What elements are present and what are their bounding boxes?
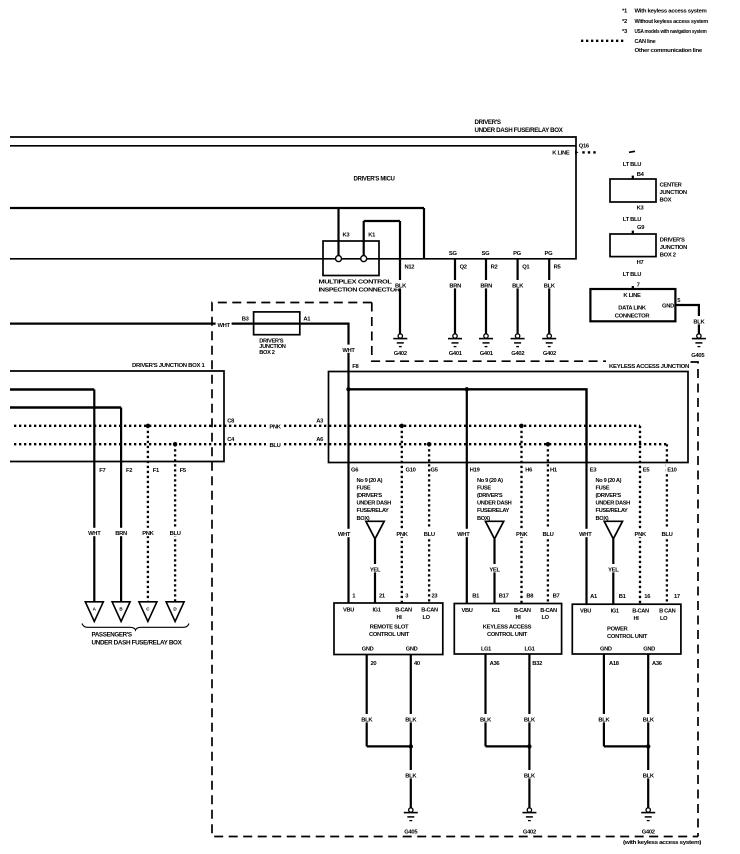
svg-text:G6: G6 [351, 467, 359, 473]
svg-text:PNK: PNK [142, 531, 154, 537]
wire label BRN (Q2) [447, 280, 465, 290]
svg-text:BLK: BLK [524, 773, 536, 779]
svg-text:BLK: BLK [395, 284, 407, 290]
svg-text:FUSE: FUSE [357, 485, 371, 491]
connector B triangle [112, 602, 130, 622]
fuse No.9 text (keyless access) [477, 478, 512, 522]
svg-text:B CAN: B CAN [659, 608, 676, 614]
driver's junction box 2 (inline) [254, 312, 300, 335]
svg-text:C4: C4 [227, 437, 235, 443]
svg-text:E5: E5 [643, 467, 651, 473]
svg-text:E10: E10 [667, 467, 676, 473]
svg-text:REMOTE SLOT: REMOTE SLOT [370, 624, 409, 630]
wire tick into driver's junction box 2 [632, 231, 634, 234]
wire label WHT (H19) [455, 529, 471, 538]
svg-text:BLK: BLK [524, 717, 536, 723]
svg-text:C8: C8 [227, 419, 235, 425]
svg-text:A1: A1 [303, 317, 311, 323]
center junction box label [660, 183, 687, 204]
pin B-CAN HI label (U3) [632, 608, 649, 621]
brace under connectors [82, 624, 189, 631]
pin B-CAN LO label (U1) [421, 608, 438, 621]
svg-text:R2: R2 [491, 264, 498, 270]
svg-text:B7: B7 [553, 593, 560, 599]
svg-text:CONNECTOR: CONNECTOR [615, 314, 651, 320]
svg-text:A6: A6 [316, 437, 324, 443]
multiplex connector label [319, 279, 401, 293]
wire YEL (power) [612, 539, 614, 604]
wire H19 WHT vertical [466, 389, 468, 603]
svg-text:FUSE: FUSE [477, 485, 491, 491]
ground G402 (N12) [393, 334, 407, 357]
svg-text:DRIVER'S: DRIVER'S [660, 238, 685, 244]
svg-text:YEL: YEL [608, 567, 619, 573]
svg-text:PNK: PNK [396, 532, 408, 538]
svg-text:LG1: LG1 [481, 647, 491, 653]
wire label BLU (E10) [659, 529, 676, 538]
svg-text:H7: H7 [637, 260, 644, 266]
svg-text:HI: HI [634, 616, 640, 622]
CAN wire E10 BLU vertical [666, 444, 668, 604]
svg-text:FUSE: FUSE [596, 485, 610, 491]
svg-text:N12: N12 [405, 264, 415, 270]
wire F8 into junction [347, 372, 349, 390]
node A3 [315, 415, 326, 425]
wire U1 ground join [367, 745, 411, 747]
svg-text:DRIVER'S MICU: DRIVER'S MICU [354, 176, 396, 183]
wire label WHT (F7) [86, 528, 102, 537]
remote slot control unit box [334, 603, 443, 655]
CAN wire F1 PNK vertical [147, 426, 149, 602]
driver's junction box 2 label [660, 238, 687, 259]
svg-text:BLK: BLK [643, 773, 655, 779]
svg-text:PNK: PNK [635, 532, 647, 538]
CAN wire G10 PNK vertical [401, 426, 403, 603]
connector C triangle [139, 602, 157, 622]
svg-text:INSPECTION CONNECTOR: INSPECTION CONNECTOR [319, 287, 401, 293]
fuse No.9 text (remote slot) [357, 478, 392, 522]
svg-text:WHT: WHT [457, 532, 470, 538]
svg-text:YEL: YEL [489, 567, 500, 573]
driver's junction box 2 (right) [610, 234, 656, 257]
svg-text:BLU: BLU [542, 532, 553, 538]
svg-text:K1: K1 [368, 232, 376, 238]
svg-text:BLK: BLK [598, 717, 610, 723]
svg-text:K LINE: K LINE [623, 293, 641, 299]
svg-text:B17: B17 [499, 593, 509, 599]
svg-text:B4: B4 [637, 172, 645, 178]
svg-text:IG1: IG1 [372, 608, 380, 614]
svg-text:UNDER DASH: UNDER DASH [357, 501, 392, 507]
svg-text:LO: LO [542, 615, 550, 621]
center junction box [610, 179, 656, 202]
driver's junction box 2 inline label [259, 339, 286, 356]
svg-text:With keyless access system: With keyless access system [635, 9, 707, 15]
svg-text:BLK: BLK [544, 284, 556, 290]
svg-text:PNK: PNK [269, 425, 281, 431]
ground G401 (Q2) [448, 334, 463, 357]
remote slot control unit label [369, 624, 410, 638]
svg-text:FUSE/RELAY: FUSE/RELAY [477, 508, 510, 514]
wire BLK U2 pin A36 [484, 654, 486, 746]
svg-text:B1: B1 [619, 594, 627, 600]
svg-text:BLK: BLK [405, 717, 417, 723]
wire jog down to box bottom [423, 208, 425, 259]
wire F2 feed horizontal [10, 406, 121, 408]
svg-text:PG: PG [545, 251, 554, 257]
svg-text:G5: G5 [431, 467, 439, 473]
svg-text:BLK: BLK [693, 320, 705, 326]
svg-text:40: 40 [414, 661, 420, 667]
keyless access control unit box [454, 604, 561, 655]
pin B CAN LO label (U3) [659, 608, 676, 621]
keyless access junction box [329, 372, 689, 463]
svg-text:MULTIPLEX CONTROL: MULTIPLEX CONTROL [319, 279, 393, 285]
CAN line BLU C4 horizontal [14, 443, 667, 445]
wire label BLK (U1 ground) [403, 770, 419, 779]
legend note *1 [622, 9, 707, 15]
junction dot F5/BLU [173, 442, 177, 446]
svg-text:BLK: BLK [512, 284, 524, 290]
wire F7 WHT vertical [93, 390, 95, 602]
svg-text:G401: G401 [480, 351, 494, 357]
svg-text:CENTER: CENTER [660, 183, 683, 189]
svg-text:G401: G401 [449, 351, 463, 357]
wire K LINE inside fuse box [10, 145, 576, 147]
svg-text:BLK: BLK [643, 717, 655, 723]
ground G402 (Q1) [511, 334, 525, 357]
svg-text:G9: G9 [637, 225, 645, 231]
svg-text:A3: A3 [316, 419, 324, 425]
svg-text:G402: G402 [511, 351, 524, 357]
svg-text:GND: GND [406, 647, 418, 653]
svg-text:YEL: YEL [370, 567, 381, 573]
wire F7 feed horizontal [10, 388, 94, 390]
wire BLK U1 to G405 [410, 746, 412, 807]
wire BLK U3 to G402 [647, 746, 649, 807]
svg-text:No 9 (20 A): No 9 (20 A) [596, 478, 622, 484]
svg-text:BRN: BRN [480, 284, 492, 290]
ground G405 (DLC) [691, 334, 706, 359]
svg-text:G405: G405 [691, 353, 705, 359]
svg-text:FUSE/RELAY: FUSE/RELAY [596, 508, 629, 514]
svg-text:PG: PG [513, 251, 522, 257]
wire F2 BRN vertical [120, 408, 122, 602]
wire E3 WHT vertical [585, 463, 587, 605]
svg-text:KEYLESS ACCESS: KEYLESS ACCESS [483, 625, 532, 631]
ground G401 (R2) [479, 334, 494, 357]
svg-text:WHT: WHT [338, 532, 351, 538]
legend note *3 [622, 29, 707, 35]
fuse No.9 text (power) [596, 478, 631, 522]
svg-text:JUNCTION: JUNCTION [660, 245, 687, 251]
wire BLK U2 pin B32 [528, 654, 530, 746]
svg-text:USA models with navigation sys: USA models with navigation system [635, 29, 707, 35]
CAN wire H6 PNK vertical [520, 426, 522, 604]
svg-text:DRIVER'S: DRIVER'S [475, 119, 501, 126]
svg-text:G402: G402 [642, 829, 655, 835]
driver's junction box 1 outline [10, 371, 224, 462]
fuse triangle (keyless access) [485, 521, 503, 539]
svg-text:K3: K3 [637, 206, 645, 212]
pin K1 circle [361, 256, 367, 262]
svg-text:B32: B32 [532, 661, 542, 667]
svg-text:UNDER DASH: UNDER DASH [477, 501, 512, 507]
svg-text:BLK: BLK [361, 717, 373, 723]
wire label PNK (H6) [514, 529, 531, 538]
dashed boundary top-right corner [691, 362, 699, 837]
svg-text:17: 17 [674, 594, 680, 600]
junction dot G10/PNK [400, 424, 404, 428]
svg-text:H6: H6 [525, 467, 533, 473]
node A6 [315, 433, 326, 443]
svg-text:LT BLU: LT BLU [623, 272, 641, 278]
wire label BLU (F5) [167, 528, 184, 537]
wire label BLK (R5) [541, 280, 558, 290]
svg-text:WHT: WHT [342, 348, 355, 354]
wire label BLK (N12) [392, 280, 409, 290]
svg-text:F1: F1 [153, 468, 160, 474]
wire G6 WHT vertical [347, 389, 349, 603]
junction dot F8/bus [346, 387, 350, 391]
svg-text:BLK: BLK [480, 717, 492, 723]
svg-text:A36: A36 [652, 661, 663, 667]
wire U2 ground join [486, 745, 530, 747]
svg-text:G402: G402 [394, 351, 407, 357]
svg-text:CONTROL UNIT: CONTROL UNIT [607, 634, 648, 640]
svg-text:PNK: PNK [516, 532, 528, 538]
wire Q1 BLK to ground [516, 259, 518, 334]
wire BLK U3 pin A18 [603, 654, 605, 746]
wire BLK U1 pin40 [410, 655, 412, 747]
fuse triangle (power) [604, 521, 622, 539]
wire label BLK (Q1) [509, 280, 526, 290]
wire label BLK (U3 A18) [596, 714, 612, 723]
svg-text:GND: GND [643, 646, 655, 652]
svg-text:A1: A1 [590, 594, 598, 600]
dashed boundary step down [372, 303, 606, 362]
junction dot G5/BLU [427, 442, 431, 446]
svg-text:Other communication line: Other communication line [635, 48, 704, 54]
svg-text:SG: SG [449, 251, 458, 257]
wire WHT to B3 [10, 320, 300, 329]
svg-text:BLU: BLU [661, 532, 672, 538]
junction dot F1/PNK [146, 424, 150, 428]
driver's under-dash fuse/relay box outline [10, 137, 576, 259]
svg-text:Q2: Q2 [460, 264, 467, 270]
svg-text:GND: GND [600, 646, 612, 652]
wire label PNK (E5) [632, 529, 649, 538]
wire label BLK (U3 ground) [640, 770, 656, 779]
svg-text:F7: F7 [99, 468, 105, 474]
wire label BLK (DLC) [690, 316, 707, 326]
svg-text:WHT: WHT [579, 532, 592, 538]
legend note *2 [622, 19, 708, 25]
svg-text:VBU: VBU [343, 608, 354, 614]
svg-text:B1: B1 [472, 593, 480, 599]
pin B-CAN HI label (U1) [395, 608, 412, 621]
wire label YEL (power) [605, 564, 621, 573]
svg-text:K3: K3 [343, 232, 351, 238]
svg-text:PASSENGER'S: PASSENGER'S [92, 632, 132, 639]
svg-text:UNDER DASH FUSE/RELAY BOX: UNDER DASH FUSE/RELAY BOX [92, 640, 183, 647]
svg-text:BLK: BLK [405, 773, 417, 779]
connector D triangle [166, 602, 184, 622]
wire N12 BLK to ground [399, 221, 401, 334]
svg-text:Q16: Q16 [579, 144, 590, 150]
junction dot U3 ground [646, 744, 650, 748]
junction dot U2 ground [527, 744, 531, 748]
svg-text:(with keyless access system): (with keyless access system) [623, 840, 702, 846]
svg-text:LT BLU: LT BLU [623, 162, 641, 168]
svg-text:H1: H1 [550, 467, 558, 473]
svg-text:IG1: IG1 [492, 608, 500, 614]
wire label WHT (F8) [341, 345, 357, 354]
svg-text:G405: G405 [404, 829, 418, 835]
svg-text:(DRIVER'S: (DRIVER'S [477, 493, 503, 499]
keyless access control unit label [483, 625, 532, 639]
wire label YEL (keyless access) [487, 564, 503, 573]
wire label YEL (remote slot) [367, 564, 383, 573]
svg-text:BOX: BOX [660, 198, 672, 204]
svg-text:B3: B3 [242, 317, 250, 323]
wire BLK U3 pin A36 [647, 654, 649, 746]
svg-text:20: 20 [371, 661, 377, 667]
svg-text:LO: LO [423, 615, 431, 621]
wire label BLU (G5) [421, 529, 438, 538]
ground G402 (U3) [641, 808, 655, 836]
svg-text:No 9 (20 A): No 9 (20 A) [357, 478, 383, 484]
wire VBU bus [349, 389, 587, 462]
svg-text:G10: G10 [406, 467, 416, 473]
svg-text:WHT: WHT [88, 531, 101, 537]
wire R2 BRN to ground [485, 259, 487, 334]
wire GND BLK to ground G405 [675, 305, 699, 334]
wire drop to K3 pin [337, 208, 339, 255]
continuation tick above LT BLU [629, 151, 635, 152]
pin K3 circle [336, 256, 342, 262]
junction dot H6/PNK [519, 424, 523, 428]
wire label BLK (U2 A36) [478, 714, 494, 723]
wire U3 ground join [604, 745, 648, 747]
pin B-CAN HI label (U2) [514, 608, 531, 621]
wire label BLK (U1 pin40) [403, 714, 419, 723]
svg-text:CAN line: CAN line [635, 39, 657, 45]
svg-text:LO: LO [660, 616, 668, 622]
svg-text:B-CAN: B-CAN [395, 608, 412, 614]
ground G405 [404, 808, 419, 836]
multiplex control inspection connector box [323, 241, 379, 276]
svg-text:KEYLESS ACCESS JUNCTION: KEYLESS ACCESS JUNCTION [609, 364, 689, 370]
wire YEL (remote slot) [374, 539, 376, 603]
ground G402 (R5) [542, 334, 556, 357]
wire label WHT (G6) [336, 529, 352, 538]
legend CAN line sample [581, 39, 656, 45]
junction dot bus/H19 [465, 387, 469, 391]
wire MICU to K3 horizontal [10, 207, 424, 209]
svg-text:BOX 2: BOX 2 [660, 253, 676, 259]
svg-text:B-CAN: B-CAN [421, 608, 438, 614]
wire K1 link horizontal [364, 220, 400, 222]
ground G402 (U2) [522, 808, 536, 836]
wire label WHT (E3) [577, 529, 593, 538]
data link connector box [590, 289, 675, 321]
power control unit label [607, 626, 648, 640]
junction dot H1/BLU [546, 442, 550, 446]
svg-text:WHT: WHT [217, 323, 230, 329]
svg-text:IG1: IG1 [611, 608, 619, 614]
driver's under-dash fuse/relay box label [475, 119, 564, 134]
node E10 [666, 464, 680, 473]
wire label BLK (U3 A36) [640, 714, 656, 723]
wire Q2 BRN to ground [454, 259, 456, 334]
svg-text:B-CAN: B-CAN [540, 608, 557, 614]
svg-text:BOX 2: BOX 2 [259, 350, 275, 356]
svg-text:A36: A36 [490, 661, 501, 667]
svg-text:B-CAN: B-CAN [632, 608, 649, 614]
svg-text:B8: B8 [526, 593, 534, 599]
CAN wire G5 BLU vertical [428, 444, 430, 603]
svg-text:LG1: LG1 [524, 647, 534, 653]
connector A triangle [85, 602, 103, 622]
wire label BRN (R2) [478, 280, 496, 290]
junction dot U1 ground [409, 744, 413, 748]
svg-text:DRIVER'S JUNCTION BOX 1: DRIVER'S JUNCTION BOX 1 [132, 363, 206, 369]
svg-text:F2: F2 [126, 468, 132, 474]
svg-text:HI: HI [397, 615, 403, 621]
CAN wire E5 PNK vertical [639, 426, 641, 604]
svg-text:JUNCTION: JUNCTION [660, 190, 687, 196]
svg-text:(DRIVER'S: (DRIVER'S [357, 493, 383, 499]
K line continuation arrow and dots [575, 151, 596, 155]
svg-text:G402: G402 [523, 829, 536, 835]
svg-text:K LINE: K LINE [552, 151, 570, 157]
svg-text:HI: HI [516, 615, 522, 621]
passenger's under dash fuse/relay box label [92, 632, 183, 647]
wire drop to K1 pin [363, 221, 365, 255]
svg-text:UNDER DASH FUSE/RELAY BOX: UNDER DASH FUSE/RELAY BOX [475, 127, 564, 134]
svg-text:H19: H19 [470, 467, 481, 473]
svg-text:GND: GND [662, 303, 674, 309]
svg-text:BLU: BLU [170, 531, 181, 537]
svg-text:B-CAN: B-CAN [514, 608, 531, 614]
svg-text:CONTROL UNIT: CONTROL UNIT [487, 632, 528, 638]
svg-text:G402: G402 [543, 351, 556, 357]
wire label PNK (CAN) [266, 421, 284, 430]
svg-text:BRN: BRN [115, 531, 127, 537]
svg-text:E3: E3 [590, 467, 598, 473]
dashed keyless access system boundary left/top [212, 303, 698, 837]
wire label BLU (H1) [540, 529, 557, 538]
wire label BLK (U1 pin20) [359, 714, 375, 723]
node C8 [226, 415, 237, 425]
power control unit box [572, 604, 681, 654]
CAN wire F5 BLU vertical [174, 444, 176, 602]
wire label BLK (U2 B32) [521, 714, 537, 723]
svg-text:F5: F5 [180, 468, 187, 474]
svg-text:SG: SG [482, 251, 491, 257]
svg-text:VBU: VBU [580, 608, 591, 614]
svg-text:DATA LINK: DATA LINK [618, 306, 647, 312]
svg-text:F8: F8 [352, 364, 359, 370]
wire BLK U2 to G402 [528, 746, 530, 807]
wire label BLU (CAN) [266, 440, 284, 449]
wire label PNK (G10) [394, 529, 411, 538]
svg-text:No 9 (20 A): No 9 (20 A) [477, 478, 503, 484]
svg-text:POWER: POWER [607, 626, 629, 632]
node C4 [226, 433, 237, 443]
wire YEL (keyless access) [493, 539, 495, 604]
